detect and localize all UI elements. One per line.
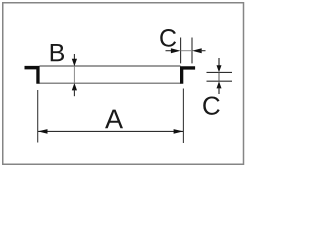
dimension C right label — [203, 96, 219, 114]
dimension C right line upper — [218, 58, 220, 66]
dimension C right lower extension line — [207, 80, 233, 82]
dimension A line — [38, 130, 183, 132]
dimension A right extension line — [182, 89, 184, 144]
dimension C top middle segment — [181, 50, 192, 52]
left end flange (thick hook) — [25, 66, 40, 84]
dimension C top right extension line — [191, 38, 193, 64]
dimension A arrow left — [38, 129, 48, 134]
dimension B line lower — [73, 89, 75, 96]
dimension C right arrow up — [217, 81, 222, 88]
dimension C top right arrow — [192, 48, 202, 53]
dimension B arrow down — [72, 59, 77, 66]
dimension C right upper extension line — [207, 71, 233, 73]
dimension A arrow right — [174, 129, 184, 134]
dimension A label — [105, 110, 123, 129]
wire web bottom line — [40, 82, 181, 84]
dimension C top left arrow — [171, 48, 181, 53]
dimension C right middle segment — [218, 72, 220, 81]
right end flange (thick step) — [180, 66, 195, 84]
dimension C right arrow down — [217, 65, 222, 72]
dimension C top left extension line — [180, 38, 182, 64]
border frame — [3, 3, 244, 165]
dimension C right line lower — [218, 88, 220, 94]
dimension B line middle — [73, 66, 75, 83]
dimension B label — [51, 44, 64, 61]
dimension C top right tail — [200, 50, 205, 52]
dimension B arrow up — [72, 83, 77, 90]
wire web top line — [40, 65, 181, 67]
dimension C top label — [160, 29, 176, 47]
dimension A left extension line — [37, 90, 39, 143]
dimension B line upper — [73, 54, 75, 61]
dimension C top left tail — [166, 50, 173, 52]
